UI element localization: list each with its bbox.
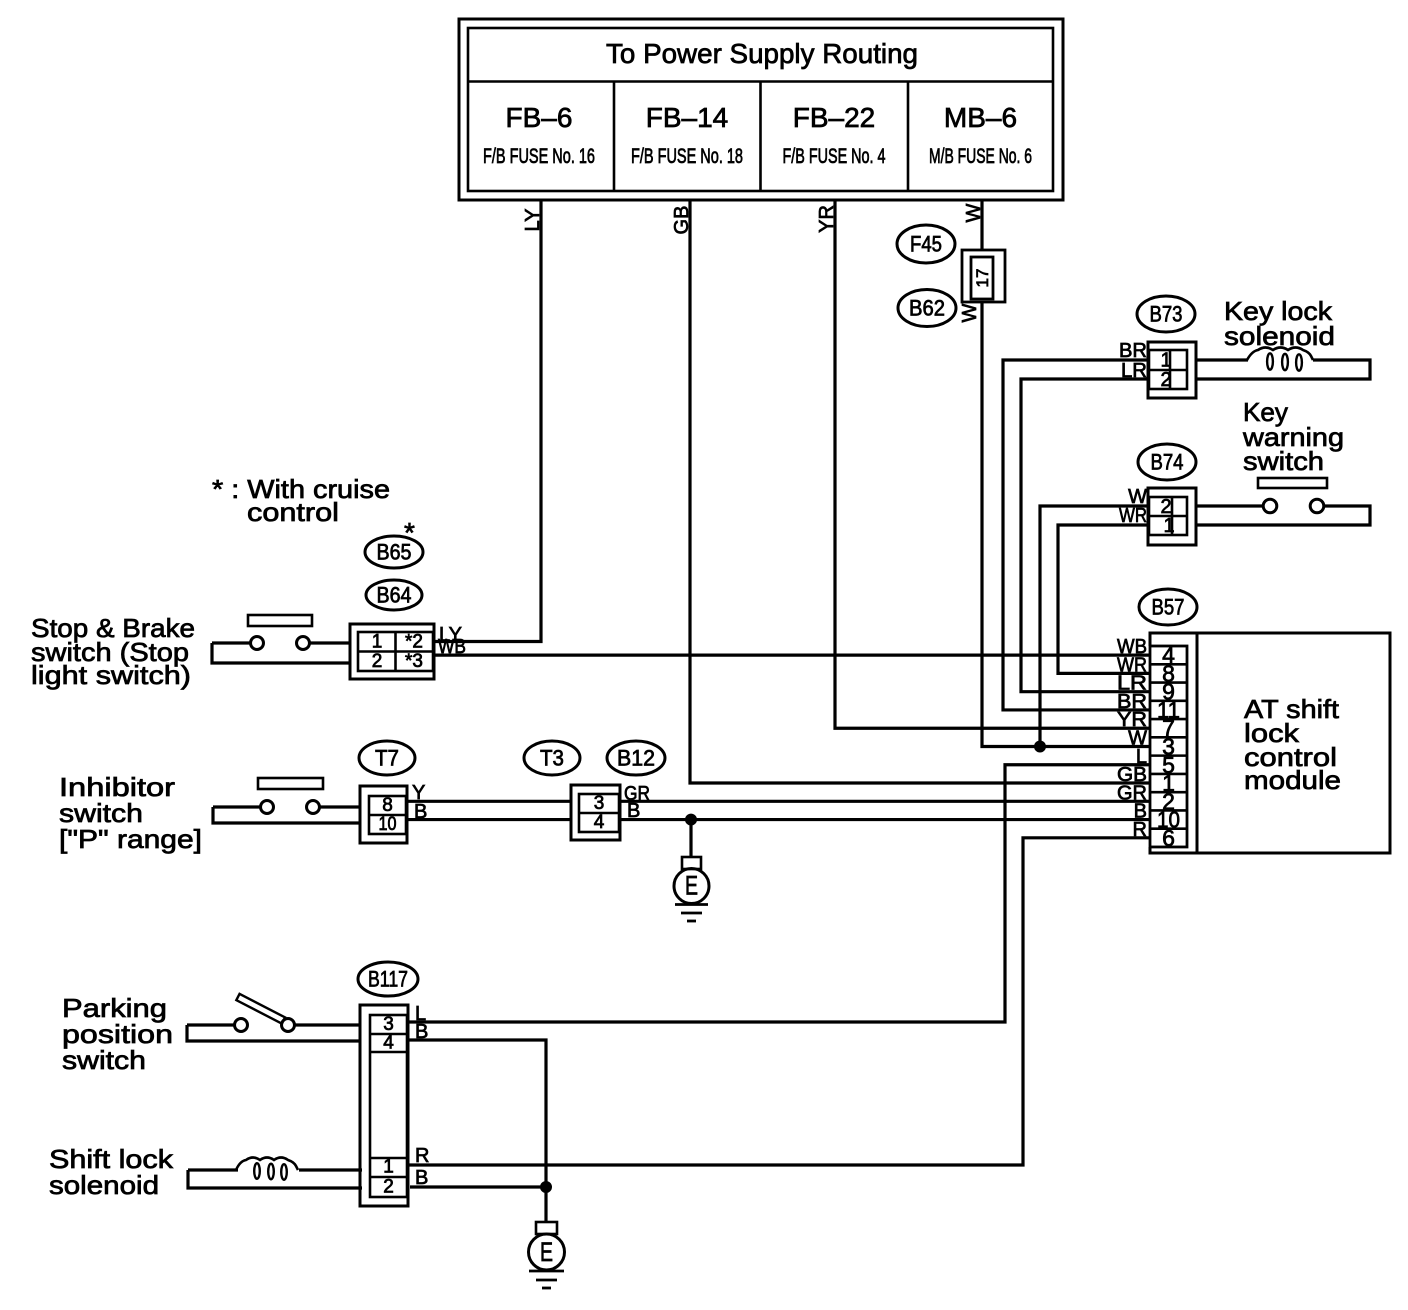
svg-text:E: E bbox=[540, 1237, 553, 1267]
svg-text:M/B FUSE No. 6: M/B FUSE No. 6 bbox=[929, 145, 1032, 168]
svg-text:FB–14: FB–14 bbox=[646, 102, 729, 133]
svg-text:4: 4 bbox=[383, 1033, 394, 1054]
svg-text:4: 4 bbox=[594, 812, 605, 833]
svg-text:B12: B12 bbox=[617, 745, 655, 770]
svg-text:1: 1 bbox=[1163, 515, 1174, 537]
svg-text:8: 8 bbox=[382, 795, 393, 816]
svg-text:MB–6: MB–6 bbox=[944, 102, 1017, 133]
svg-text:switch: switch bbox=[62, 1045, 146, 1075]
svg-text:1: 1 bbox=[383, 1157, 394, 1178]
svg-text:switch: switch bbox=[1243, 446, 1324, 476]
svg-text:YR: YR bbox=[816, 205, 838, 233]
svg-text:FB–6: FB–6 bbox=[506, 102, 573, 133]
svg-text:F/B FUSE No. 4: F/B FUSE No. 4 bbox=[783, 145, 886, 168]
svg-text:*3: *3 bbox=[405, 651, 423, 672]
svg-text:10: 10 bbox=[379, 814, 397, 835]
svg-text:T7: T7 bbox=[375, 745, 399, 770]
svg-text:R: R bbox=[1133, 819, 1147, 841]
svg-text:B74: B74 bbox=[1151, 449, 1184, 474]
svg-text:2: 2 bbox=[383, 1177, 394, 1198]
svg-text:B: B bbox=[627, 800, 640, 822]
svg-text:B117: B117 bbox=[368, 966, 408, 991]
svg-text:B: B bbox=[415, 1021, 428, 1043]
svg-text:BR: BR bbox=[1119, 340, 1147, 362]
svg-text:solenoid: solenoid bbox=[49, 1170, 159, 1200]
svg-text:T3: T3 bbox=[540, 745, 564, 770]
svg-text:B: B bbox=[415, 1167, 428, 1189]
svg-text:R: R bbox=[415, 1145, 429, 1167]
svg-text:*2: *2 bbox=[405, 632, 423, 653]
svg-text:GB: GB bbox=[671, 206, 693, 235]
svg-text:F45: F45 bbox=[910, 231, 942, 256]
svg-text:B: B bbox=[414, 801, 427, 823]
svg-text:6: 6 bbox=[1162, 825, 1175, 851]
svg-text:WB: WB bbox=[438, 636, 466, 658]
svg-text:B62: B62 bbox=[909, 295, 945, 320]
svg-text:W: W bbox=[963, 203, 985, 222]
svg-text:2: 2 bbox=[372, 651, 383, 672]
svg-text:1: 1 bbox=[372, 632, 383, 653]
svg-text:FB–22: FB–22 bbox=[793, 102, 876, 133]
svg-text:B73: B73 bbox=[1150, 301, 1183, 326]
svg-text:W: W bbox=[959, 303, 981, 322]
svg-text:17: 17 bbox=[973, 269, 992, 288]
svg-text:LR: LR bbox=[1121, 360, 1147, 382]
svg-text:3: 3 bbox=[594, 793, 605, 814]
svg-text:control: control bbox=[247, 497, 339, 527]
svg-text:F/B FUSE No. 18: F/B FUSE No. 18 bbox=[631, 145, 743, 168]
svg-text:B64: B64 bbox=[377, 582, 412, 607]
svg-text:LY: LY bbox=[522, 209, 544, 232]
svg-text:F/B FUSE No. 16: F/B FUSE No. 16 bbox=[483, 145, 595, 168]
svg-text:B57: B57 bbox=[1152, 594, 1185, 619]
svg-text:2: 2 bbox=[1160, 369, 1171, 391]
svg-text:B65: B65 bbox=[377, 539, 412, 564]
svg-text:E: E bbox=[685, 871, 698, 901]
svg-text:light switch): light switch) bbox=[31, 660, 191, 690]
svg-text:WR: WR bbox=[1119, 505, 1147, 527]
svg-text:module: module bbox=[1244, 765, 1341, 795]
svg-text:To Power Supply Routing: To Power Supply Routing bbox=[606, 38, 918, 69]
svg-text:["P" range]: ["P" range] bbox=[59, 824, 202, 854]
